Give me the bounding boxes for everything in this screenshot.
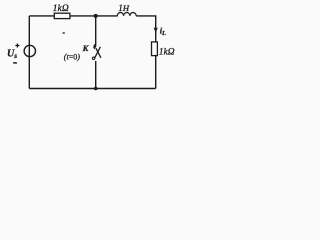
switch K top contact dot bbox=[94, 44, 97, 47]
wire top-middle segment (R1 to L) bbox=[70, 15, 117, 17]
switch K bottom contact circle bbox=[92, 57, 94, 59]
current arrow iL (arrowhead on right wire) bbox=[154, 28, 158, 33]
svg-text:1kΩ: 1kΩ bbox=[159, 46, 175, 57]
middle branch upper wire bbox=[95, 16, 97, 45]
resistor RL box bbox=[152, 42, 158, 56]
wire left side bbox=[28, 16, 30, 89]
voltage source Us circle bbox=[24, 45, 35, 56]
switch K closing arrowhead bbox=[93, 47, 96, 50]
resistor R1 box bbox=[54, 13, 70, 18]
inductor L (3 humps) bbox=[117, 12, 136, 15]
junction dot top bbox=[94, 14, 98, 18]
wire bottom bbox=[29, 88, 155, 90]
svg-text:1kΩ: 1kΩ bbox=[53, 3, 69, 14]
polarity minus bbox=[13, 62, 17, 64]
junction dot bottom bbox=[94, 87, 98, 91]
svg-text:(t=0): (t=0) bbox=[64, 53, 80, 62]
scan speck bbox=[62, 32, 65, 34]
middle branch lower wire bbox=[95, 61, 97, 89]
switch K blade bbox=[95, 47, 101, 58]
wire top-right corner and right side down bbox=[136, 16, 156, 89]
switch K arrow shaft bbox=[96, 48, 101, 58]
svg-text:1H: 1H bbox=[118, 3, 130, 13]
polarity plus bbox=[15, 44, 19, 48]
wire top-left segment (source to R1) bbox=[29, 15, 54, 17]
